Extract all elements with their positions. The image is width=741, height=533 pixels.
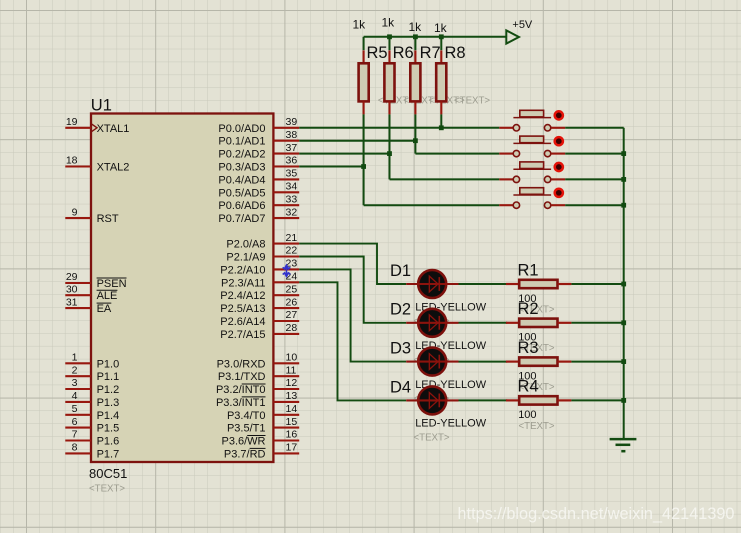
pin 19 XTAL1 stub (65, 127, 91, 129)
svg-text:3: 3 (72, 377, 78, 389)
svg-text:R6: R6 (393, 44, 414, 62)
pin 10 P3.0/RXD stub (273, 362, 299, 364)
svg-text:P1.1: P1.1 (97, 371, 120, 383)
svg-text:29: 29 (66, 271, 78, 283)
resistor R5 vertical wire top (363, 37, 365, 50)
pin 13 P3.3/INT1 stub (273, 401, 299, 403)
svg-text:22: 22 (286, 245, 298, 257)
blue move marker near pin 23 (283, 264, 291, 279)
svg-text:<TEXT>: <TEXT> (519, 421, 555, 432)
svg-text:P2.3/A11: P2.3/A11 (221, 277, 265, 289)
svg-text:32: 32 (286, 206, 298, 218)
svg-text:R5: R5 (367, 44, 388, 62)
svg-text:26: 26 (286, 296, 298, 308)
button B3 right terminal (544, 176, 550, 182)
resistor R7 vertical wire top (414, 37, 416, 50)
resistor R5 top lead (363, 50, 365, 63)
wire R2 to bus (571, 322, 623, 324)
svg-text:13: 13 (286, 390, 298, 402)
svg-text:P2.5/A13: P2.5/A13 (220, 303, 265, 315)
svg-text:30: 30 (66, 283, 78, 295)
pin 22 P2.1/A9 stub (273, 255, 299, 257)
button B2 cap (513, 142, 551, 144)
pin 27 P2.6/A14 stub (273, 320, 299, 322)
pin 9 RST stub (65, 217, 91, 219)
svg-text:P3.3/INT1: P3.3/INT1 (216, 397, 266, 409)
svg-text:31: 31 (66, 296, 78, 308)
button B3 right lead (551, 178, 565, 180)
svg-text:P3.0/RXD: P3.0/RXD (217, 358, 266, 370)
svg-text:EA: EA (97, 303, 112, 315)
resistor R5 bottom lead (363, 101, 365, 114)
led D3 (418, 348, 446, 376)
wire R7 drop (414, 114, 416, 153)
junction P0.3/R5 (361, 164, 366, 169)
pin 5 P1.4 stub (65, 414, 91, 416)
junction P0.2/R6 (387, 151, 392, 156)
svg-text:38: 38 (286, 129, 298, 141)
wire R8 drop (440, 114, 442, 127)
svg-text:P1.2: P1.2 (97, 384, 120, 396)
wire +5V rail (364, 36, 507, 38)
wire button B2 to bus (565, 153, 624, 155)
pin 31 EA stub (65, 307, 91, 309)
pin 6 P1.5 stub (65, 427, 91, 429)
wire P0.1 row (299, 140, 415, 142)
svg-text:P3.1/TXD: P3.1/TXD (218, 371, 266, 383)
wire button3 feed (390, 178, 500, 180)
resistor R3 (506, 361, 519, 363)
junction rail R8 (439, 34, 444, 39)
svg-text:R1: R1 (518, 261, 539, 279)
pin 16 P3.6/WR stub (273, 439, 299, 441)
button B4 right terminal (544, 202, 550, 208)
svg-text:P2.6/A14: P2.6/A14 (220, 316, 265, 328)
svg-text:8: 8 (72, 442, 78, 454)
svg-text:P0.6/AD6: P0.6/AD6 (218, 200, 265, 212)
junction bus R3 (621, 359, 626, 364)
wire D2 to R2 (459, 322, 508, 324)
button B4 cap (513, 194, 551, 196)
pin 8 P1.7 stub (65, 452, 91, 454)
svg-text:P1.6: P1.6 (97, 436, 120, 448)
button B1 cap (513, 117, 551, 119)
wire P0.2 row (299, 153, 389, 155)
svg-text:U1: U1 (91, 97, 112, 115)
wire D4 to R4 (459, 399, 508, 401)
svg-text:R7: R7 (420, 44, 441, 62)
svg-text:P1.0: P1.0 (97, 358, 120, 370)
svg-text:80C51: 80C51 (89, 466, 127, 481)
svg-text:P3.7/RD: P3.7/RD (224, 448, 266, 460)
pin 39 P0.0/AD0 stub (273, 127, 299, 129)
svg-text:P1.4: P1.4 (97, 410, 120, 422)
button B1 right terminal (544, 125, 550, 131)
svg-text:D2: D2 (390, 301, 411, 319)
button B4 left lead (499, 204, 513, 206)
svg-text:9: 9 (72, 206, 78, 218)
wire button B4 to bus (565, 204, 624, 206)
svg-text:R2: R2 (518, 300, 539, 318)
resistor R4 (506, 399, 519, 401)
svg-text:<TEXT>: <TEXT> (89, 484, 125, 495)
pin 23 P2.2/A10 stub (273, 268, 299, 270)
svg-text:P3.2/INT0: P3.2/INT0 (216, 384, 266, 396)
button B4 actuator target (555, 189, 563, 197)
pin 24 P2.3/A11 stub (273, 281, 299, 283)
button B1 left terminal (513, 125, 519, 131)
wire R5 drop (363, 114, 365, 205)
junction bus R1 (621, 282, 626, 287)
svg-text:11: 11 (286, 364, 297, 376)
pin 2 P1.1 stub (65, 375, 91, 377)
wire button2 feed (415, 153, 499, 155)
junction P0.0/R8 (439, 125, 444, 130)
chip U1 80C51 body (91, 114, 273, 463)
svg-text:<TEXT>: <TEXT> (414, 432, 450, 443)
resistor R8 bottom lead (440, 101, 442, 114)
svg-text:P2.7/A15: P2.7/A15 (220, 329, 265, 341)
button B3 left terminal (513, 176, 519, 182)
wire R1 to bus (571, 283, 623, 285)
svg-text:39: 39 (286, 116, 298, 128)
svg-text:P0.4/AD4: P0.4/AD4 (218, 174, 265, 186)
wire button B1 to bus (565, 127, 624, 129)
svg-text:P0.7/AD7: P0.7/AD7 (218, 213, 265, 225)
junction rail R7 (413, 34, 418, 39)
resistor R7 bottom lead (414, 101, 416, 114)
svg-text:P1.7: P1.7 (97, 448, 120, 460)
svg-text:12: 12 (286, 377, 298, 389)
wire ground bus vertical (623, 128, 625, 439)
pin 36 P0.3/AD3 stub (273, 165, 299, 167)
pin 4 P1.3 stub (65, 401, 91, 403)
pin 25 P2.4/A12 stub (273, 294, 299, 296)
button B2 actuator target (555, 137, 563, 145)
button B1 actuator target (555, 111, 563, 119)
pin 15 P3.5/T1 stub (273, 427, 299, 429)
wire button4 feed (364, 204, 500, 206)
svg-text:ALE: ALE (97, 290, 118, 302)
junction bus R2 (621, 320, 626, 325)
wire P0.0 row (299, 127, 499, 129)
svg-text:37: 37 (286, 142, 298, 154)
resistor R2 (506, 322, 519, 324)
pin 37 P0.2/AD2 stub (273, 153, 299, 155)
svg-text:1k: 1k (409, 20, 423, 34)
svg-text:4: 4 (72, 390, 78, 402)
svg-text:P3.4/T0: P3.4/T0 (227, 410, 266, 422)
pin 12 P3.2/INT0 stub (273, 388, 299, 390)
wire P2.3 stair (299, 282, 406, 400)
svg-text:10: 10 (286, 352, 298, 364)
svg-text:P3.5/T1: P3.5/T1 (227, 423, 266, 435)
svg-text:1k: 1k (382, 15, 396, 29)
button B2 left terminal (513, 150, 519, 156)
led D1 (418, 270, 446, 298)
svg-text:16: 16 (286, 429, 298, 441)
svg-text:P0.0/AD0: P0.0/AD0 (218, 123, 265, 135)
junction rail R6 (387, 34, 392, 39)
pin 1 P1.0 stub (65, 362, 91, 364)
pin 26 P2.5/A13 stub (273, 307, 299, 309)
svg-text:34: 34 (286, 181, 298, 193)
svg-text:7: 7 (72, 429, 78, 441)
led D2 (418, 309, 446, 337)
svg-text:XTAL2: XTAL2 (97, 162, 130, 174)
svg-text:+5V: +5V (512, 19, 533, 31)
wire P0.3 row (299, 166, 363, 168)
svg-text:1: 1 (72, 352, 78, 364)
pin 29 PSEN stub (65, 282, 91, 284)
svg-text:25: 25 (286, 283, 298, 295)
wire D1 to R1 (459, 283, 508, 285)
resistor R5 body (359, 63, 369, 101)
pin 3 P1.2 stub (65, 388, 91, 390)
svg-text:15: 15 (286, 416, 298, 428)
svg-text:D3: D3 (390, 340, 411, 358)
svg-text:R3: R3 (518, 339, 539, 357)
svg-text:https://blog.csdn.net/weixin_4: https://blog.csdn.net/weixin_42141390 (458, 505, 735, 523)
svg-text:35: 35 (286, 168, 298, 180)
wire button B3 to bus (565, 178, 624, 180)
svg-text:2: 2 (72, 364, 78, 376)
svg-text:27: 27 (286, 309, 298, 321)
svg-text:P2.0/A8: P2.0/A8 (226, 239, 265, 251)
button B1 right lead (551, 127, 565, 129)
svg-text:18: 18 (66, 155, 78, 167)
resistor R8 vertical wire top (440, 37, 442, 50)
junction bus R4 (621, 398, 626, 403)
led D4 (418, 386, 446, 414)
pin 30 ALE stub (65, 294, 91, 296)
svg-text:P3.6/WR: P3.6/WR (221, 436, 265, 448)
pin 32 P0.7/AD7 stub (273, 217, 299, 219)
pin 38 P0.1/AD1 stub (273, 140, 299, 142)
button B3 actuator target (555, 163, 563, 171)
pin 21 P2.0/A8 stub (273, 243, 299, 245)
svg-text:P1.5: P1.5 (97, 423, 120, 435)
svg-text:36: 36 (286, 155, 298, 167)
ground symbol (610, 439, 637, 451)
wire P2.0 stair (299, 244, 406, 284)
pin 14 P3.4/T0 stub (273, 414, 299, 416)
svg-text:R4: R4 (518, 378, 539, 396)
pin 11 P3.1/TXD stub (273, 375, 299, 377)
svg-text:100: 100 (518, 409, 536, 421)
pin 18 XTAL2 stub (65, 165, 91, 167)
button B1 left lead (499, 127, 513, 129)
resistor R7 body (410, 63, 420, 101)
svg-text:33: 33 (286, 193, 298, 205)
svg-text:PSEN: PSEN (97, 278, 127, 290)
button B2 right terminal (544, 150, 550, 156)
resistor R6 body (384, 63, 394, 101)
button B4 right lead (551, 204, 565, 206)
junction P0.1/R7 (413, 138, 418, 143)
button B3 cap (513, 168, 551, 170)
pin 7 P1.6 stub (65, 439, 91, 441)
svg-text:P2.2/A10: P2.2/A10 (220, 264, 265, 276)
svg-text:P0.5/AD5: P0.5/AD5 (218, 187, 265, 199)
wire R4 to bus (571, 399, 623, 401)
resistor R7 top lead (414, 50, 416, 63)
button B3 left lead (499, 178, 513, 180)
pin 17 P3.7/RD stub (273, 452, 299, 454)
resistor R1 (506, 283, 519, 285)
pin 33 P0.6/AD6 stub (273, 204, 299, 206)
clock marker XTAL1 (92, 124, 98, 132)
pin 28 P2.7/A15 stub (273, 333, 299, 335)
svg-text:14: 14 (286, 403, 298, 415)
svg-text:P0.1/AD1: P0.1/AD1 (218, 136, 265, 148)
wire D3 to R3 (459, 361, 508, 363)
svg-text:RST: RST (97, 213, 119, 225)
button B4 left terminal (513, 202, 519, 208)
resistor R6 vertical wire top (389, 37, 391, 50)
svg-text:P1.3: P1.3 (97, 397, 120, 409)
pin 35 P0.4/AD4 stub (273, 178, 299, 180)
wire P2.2 stair (299, 269, 406, 361)
svg-text:6: 6 (72, 416, 78, 428)
svg-text:<TEXT>: <TEXT> (454, 96, 490, 107)
svg-text:R8: R8 (445, 44, 466, 62)
power +5V symbol (506, 30, 519, 43)
resistor R6 bottom lead (388, 101, 390, 114)
resistor R6 top lead (388, 50, 390, 63)
svg-text:P2.4/A12: P2.4/A12 (220, 290, 265, 302)
svg-text:XTAL1: XTAL1 (97, 123, 130, 135)
resistor R8 top lead (440, 50, 442, 63)
svg-text:LED-YELLOW: LED-YELLOW (415, 418, 487, 430)
svg-text:1k: 1k (434, 21, 448, 35)
svg-text:P2.1/A9: P2.1/A9 (226, 252, 265, 264)
wire R3 to bus (571, 361, 623, 363)
wire P2.1 stair (299, 257, 406, 323)
svg-text:17: 17 (286, 442, 298, 454)
pin 34 P0.5/AD5 stub (273, 191, 299, 193)
svg-text:D1: D1 (390, 262, 411, 280)
svg-text:D4: D4 (390, 378, 411, 396)
wire R6 drop (389, 114, 391, 179)
resistor R8 body (436, 63, 446, 101)
svg-text:1k: 1k (353, 18, 367, 32)
button B2 right lead (551, 153, 565, 155)
junction bus button B4 (621, 203, 626, 208)
svg-text:28: 28 (286, 322, 298, 334)
junction bus button B2 (621, 151, 626, 156)
svg-text:P0.2/AD2: P0.2/AD2 (218, 149, 265, 161)
svg-text:21: 21 (286, 232, 298, 244)
button B2 left lead (499, 153, 513, 155)
svg-text:P0.3/AD3: P0.3/AD3 (218, 162, 265, 174)
svg-text:5: 5 (72, 403, 78, 415)
junction bus button B3 (621, 177, 626, 182)
svg-text:19: 19 (66, 116, 78, 128)
